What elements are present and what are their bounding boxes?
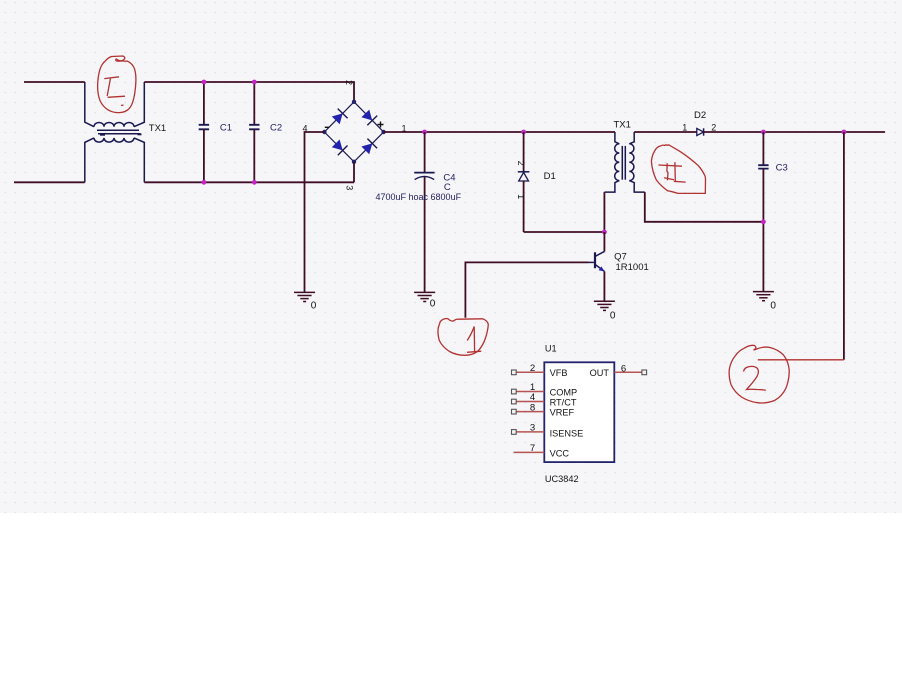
junction C1 bottom <box>202 180 207 185</box>
annotation circle 1 (Q7 base wire) <box>438 319 488 356</box>
svg-text:0: 0 <box>311 300 317 311</box>
ground 0 (C3) <box>753 292 774 301</box>
svg-text:COMP: COMP <box>550 388 578 398</box>
bridge diode bottom-right <box>361 139 377 155</box>
svg-text:1: 1 <box>516 194 526 199</box>
capacitor C4 (polarized) <box>376 132 462 292</box>
svg-text:VREF: VREF <box>550 407 575 417</box>
capacitor C3 <box>758 132 788 292</box>
svg-text:D2: D2 <box>694 110 706 121</box>
annotation circle I (input transformer) <box>98 56 136 113</box>
junction right rail top <box>842 130 847 135</box>
junction C2 top <box>252 80 257 85</box>
transformer TX1 (flyback) <box>604 132 644 192</box>
svg-text:8: 8 <box>530 402 535 413</box>
svg-text:1: 1 <box>682 123 687 133</box>
bridge diode bottom-left <box>332 140 348 156</box>
wire top rail TX1 secondary to D2 <box>634 131 697 133</box>
wire D2 to C3 to right rail <box>704 131 885 133</box>
svg-text:2: 2 <box>344 80 354 85</box>
wire right rail down <box>843 132 845 360</box>
svg-text:TX1: TX1 <box>149 123 166 134</box>
junction C1 top <box>202 80 207 85</box>
svg-text:6: 6 <box>621 363 626 374</box>
bridge diode top-left <box>332 109 348 125</box>
bridge diode top-right <box>361 110 377 126</box>
junction C2 bottom <box>252 180 257 185</box>
svg-text:2: 2 <box>530 363 535 374</box>
junction D1 top <box>521 130 526 135</box>
wire D1 bottom to Q7 collector node <box>524 231 605 233</box>
ground 0 (C4) <box>414 292 435 301</box>
svg-text:RT/CT: RT/CT <box>550 397 577 407</box>
wire Q7 base <box>465 262 588 317</box>
svg-text:OUT: OUT <box>590 368 610 378</box>
annotation circle II (flyback transformer) <box>651 145 705 193</box>
diode D2 <box>682 110 716 136</box>
capacitor C2 <box>249 82 282 182</box>
junction C3 top <box>761 130 766 135</box>
wire top rail to bridge <box>144 82 354 102</box>
U1 pin 1 wire COMP <box>512 382 545 394</box>
svg-text:U1: U1 <box>545 344 557 354</box>
junction Q7 collector node <box>602 230 607 235</box>
U1 pin 6 wire OUT <box>614 363 646 374</box>
svg-text:7: 7 <box>530 443 535 454</box>
bridge minus sign <box>325 126 330 128</box>
svg-text:C3: C3 <box>776 163 788 174</box>
diode D1 <box>516 132 556 232</box>
transistor Q7 <box>589 232 649 301</box>
U1 pin 7 wire VCC <box>514 443 545 454</box>
schematic grid background <box>0 0 902 513</box>
svg-text:0: 0 <box>770 300 776 311</box>
svg-text:3: 3 <box>530 423 535 434</box>
op-amp U1 UC3842 body <box>544 362 614 462</box>
svg-text:C2: C2 <box>270 123 282 134</box>
ground 0 (bridge pin4) <box>294 292 315 301</box>
svg-text:VCC: VCC <box>550 448 570 458</box>
wire top-left AC input <box>24 81 85 83</box>
U1 pin 8 wire VREF <box>512 402 545 414</box>
annotation circle 2 with pointer line (output) <box>729 345 844 403</box>
svg-text:1R1001: 1R1001 <box>616 262 649 273</box>
svg-text:0: 0 <box>430 299 436 310</box>
wire bottom rail to bridge <box>144 181 354 183</box>
svg-text:VFB: VFB <box>550 368 568 378</box>
transformer TX1 (input) <box>85 82 145 182</box>
svg-text:TX1: TX1 <box>614 120 631 131</box>
capacitor C1 <box>199 82 232 182</box>
U1 pin 3 wire ISENSE <box>512 423 545 435</box>
svg-text:Q7: Q7 <box>614 251 627 262</box>
ground 0 (Q7 emitter) <box>594 301 615 310</box>
svg-text:C1: C1 <box>220 123 232 134</box>
svg-text:2: 2 <box>711 123 716 133</box>
svg-text:2: 2 <box>516 161 526 166</box>
wire bridge pin4 to ground <box>305 132 325 292</box>
wire bridge pin1 output rail <box>384 131 615 133</box>
bridge corner pins <box>352 100 356 104</box>
svg-text:D1: D1 <box>544 171 556 182</box>
svg-text:3: 3 <box>345 185 355 190</box>
U1 pin 2 wire VFB <box>512 363 545 375</box>
wire TX1 secondary bottom to C3 node <box>645 192 764 222</box>
bridge rectifier diamond <box>324 102 383 162</box>
junction C4 top <box>422 130 427 135</box>
svg-text:ISENSE: ISENSE <box>550 429 584 439</box>
bridge plus sign <box>378 122 384 128</box>
svg-text:4700uF hoac 6800uF: 4700uF hoac 6800uF <box>376 192 462 202</box>
junction C3 bottom node <box>761 219 766 224</box>
wire bottom-left AC input <box>14 181 85 183</box>
wire TX1 primary bottom to collector node <box>603 192 605 232</box>
svg-text:UC3842: UC3842 <box>545 474 579 484</box>
svg-text:0: 0 <box>610 310 616 321</box>
wire bridge pin3 down to bottom rail <box>353 162 355 183</box>
svg-text:C: C <box>444 182 451 193</box>
U1 pin 4 wire RT/CT <box>512 392 545 404</box>
